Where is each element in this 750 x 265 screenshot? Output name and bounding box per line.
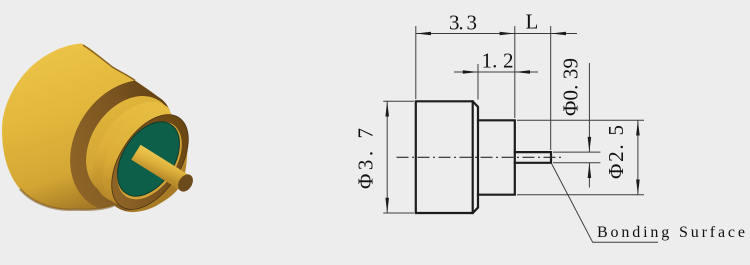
body bottom-left edge shading (20, 189, 114, 210)
P2.5 (517, 119, 644, 121)
svg-text:3. 3: 3. 3 (449, 11, 477, 35)
3.3 right / L left (tip 514.8 pointing right) (500, 32, 515, 36)
dim 1.2 (477, 64, 479, 100)
body outline with chamfers (416, 101, 478, 213)
center pin (131, 145, 190, 191)
arrowheads (385, 32, 639, 213)
P3.7 bottom (385, 198, 389, 213)
svg-text:1. 2: 1. 2 (482, 48, 514, 72)
dimension texts (354, 10, 629, 190)
dim line 3.3 / L (416, 33, 551, 35)
svg-text:Φ0. 39: Φ0. 39 (559, 58, 583, 116)
P3.7 extension lines (383, 100, 414, 102)
leader (551, 163, 658, 242)
step cylinder side (gold band) (76, 86, 196, 217)
step outline (478, 120, 515, 194)
green dielectric face (105, 111, 192, 208)
svg-text:L: L (526, 10, 539, 34)
pin end face (175, 172, 196, 195)
1.2 right outside (tip 514.8 pointing left) (515, 70, 530, 74)
thin dimension/extension lines (383, 26, 658, 242)
chamfer edge line (472, 101, 474, 213)
3.3 left (tip 415.8,33.5 pointing left) (416, 32, 431, 36)
P0.39 bottom arrow pointing up (588, 163, 592, 178)
P2.5 bottom (636, 180, 640, 195)
pin outline (515, 152, 551, 163)
P0.39 (553, 151, 600, 153)
gold bore ring highlight (104, 110, 195, 211)
1.2 left outside (tip 478 pointing right) (463, 70, 478, 74)
P0.39 top arrow pointing down (588, 137, 592, 152)
svg-text:Φ2. 5: Φ2. 5 (604, 125, 628, 179)
P3.7 top (tip 387.2,101.3 up) (385, 101, 389, 116)
body top edge dark line (83, 45, 135, 81)
P2.5 top (636, 120, 640, 135)
extension lines top (415, 26, 417, 99)
front annulus of body (dark ring face) (57, 68, 203, 223)
step front rim (brown ring) (96, 101, 204, 223)
L right (tip 550.7 pointing left, outside) (551, 32, 566, 36)
centerline (397, 156, 565, 158)
connector body (large cylinder) (2, 44, 187, 213)
